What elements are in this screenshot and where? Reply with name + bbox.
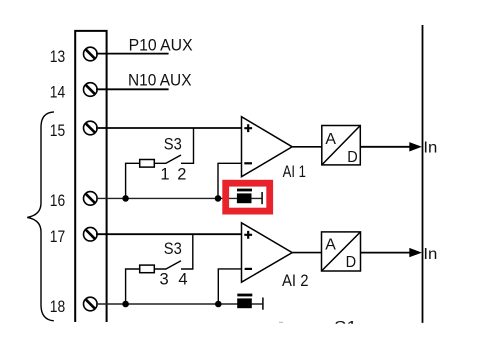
right bus line (In) — [422, 25, 424, 323]
A/D converter 2 — [322, 232, 361, 271]
wire terminal 17 to op-amp U2 + input — [96, 233, 242, 235]
red highlight box — [226, 183, 270, 211]
junction dot wire16 / S3 — [122, 195, 129, 202]
op-amp U2 (AI 2) — [242, 223, 293, 282]
switch S3 contacts 1-2 : left riser from wire 16 — [126, 163, 140, 198]
svg-text:A: A — [325, 131, 336, 148]
terminal block X1 outline — [74, 31, 107, 322]
svg-text:In: In — [423, 246, 437, 263]
EMC filter element channel 2 — [237, 295, 263, 310]
wire U1 output to A/D 1 — [292, 146, 322, 148]
terminal 13 screw — [84, 47, 98, 61]
switch S3 contacts 1-2 : body rect — [140, 160, 155, 168]
svg-text:D: D — [347, 149, 358, 166]
svg-text:AI 1: AI 1 — [283, 163, 306, 181]
switch S3 contacts 3-4 : left riser from wire 18 — [126, 269, 140, 304]
switch S3 contacts 3-4 : body rect — [140, 265, 155, 273]
riser from wire 16 to U1 minus input — [218, 163, 242, 198]
svg-text:3: 3 — [160, 271, 169, 289]
svg-text:14: 14 — [50, 84, 65, 102]
svg-text:P10 AUX: P10 AUX — [129, 35, 193, 54]
svg-text:AI 2: AI 2 — [282, 272, 309, 290]
svg-text:S3: S3 — [164, 239, 182, 258]
terminal 17 screw — [84, 227, 98, 241]
terminal 18 screw — [84, 297, 98, 311]
A/D converter 1 — [322, 126, 361, 166]
wire terminal 16 to filter — [96, 197, 262, 199]
terminal 15 screw — [84, 121, 98, 135]
wire N10 AUX from terminal 14 — [96, 88, 169, 90]
U2 plus sign — [244, 231, 252, 239]
junction dot wire16 / U1 minus riser — [215, 195, 222, 202]
svg-text:In: In — [423, 140, 437, 157]
svg-text:S3: S3 — [164, 134, 182, 153]
U1 plus sign — [244, 124, 252, 132]
svg-text:D: D — [346, 254, 357, 271]
svg-text:N10 AUX: N10 AUX — [128, 71, 192, 90]
U1 minus sign — [244, 162, 252, 164]
wire A/D 1 to bus with arrow — [360, 142, 422, 151]
svg-text:18: 18 — [50, 298, 65, 316]
wire terminal 15 to op-amp U1 + input — [96, 127, 242, 129]
switch S3 contacts 1-2 : blade and contact — [154, 128, 193, 164]
wire P10 AUX from terminal 13 — [96, 53, 169, 55]
svg-text:15: 15 — [50, 122, 65, 140]
clipped partial label S1 at bottom — [279, 317, 357, 336]
svg-text:1: 1 — [160, 166, 169, 184]
EMC filter element channel 1 (inside highlight) — [237, 190, 262, 204]
switch S3 contacts 3-4 : blade and contact — [154, 234, 193, 269]
riser from wire 18 to U2 minus input — [218, 269, 242, 304]
svg-text:13: 13 — [50, 48, 65, 66]
U2 minus sign — [245, 268, 252, 270]
terminal 16 screw — [84, 192, 98, 206]
wire U2 output to A/D 2 — [292, 252, 322, 254]
terminal 14 screw — [84, 83, 98, 97]
junction dot wire18 / U2 minus riser — [215, 301, 222, 308]
brace grouping terminals 15-18 — [27, 112, 54, 321]
svg-text:4: 4 — [178, 271, 187, 289]
svg-text:2: 2 — [177, 166, 186, 184]
op-amp U1 (AI 1) — [242, 117, 293, 177]
junction dot wire18 / S3 — [122, 301, 129, 308]
svg-text:17: 17 — [50, 228, 65, 246]
svg-text:A: A — [325, 236, 336, 253]
svg-text:16: 16 — [50, 192, 65, 210]
wire A/D 2 to bus with arrow — [361, 248, 422, 257]
wire terminal 18 to filter — [96, 303, 263, 305]
